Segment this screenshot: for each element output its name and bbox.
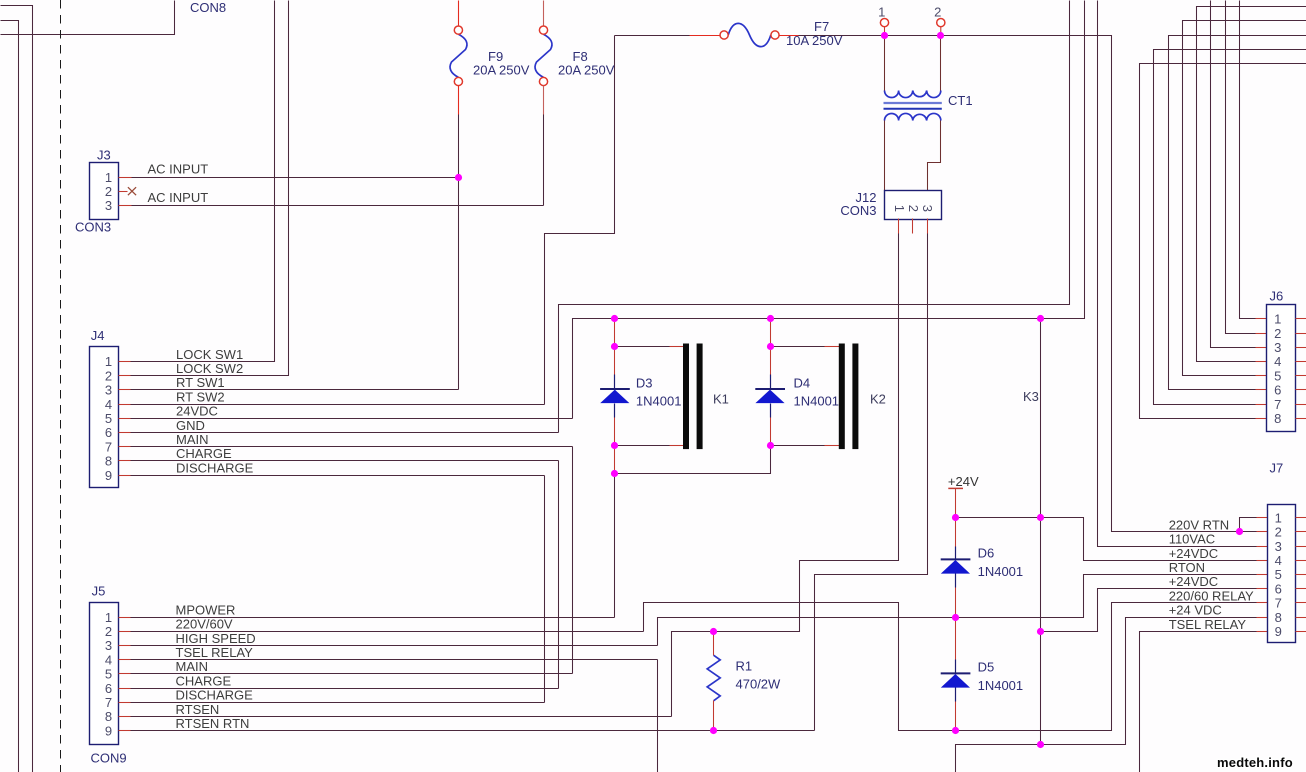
svg-text:220V RTN: 220V RTN: [1169, 517, 1229, 532]
svg-text:3: 3: [105, 383, 112, 398]
diode D4 cathode stem and bar: [770, 375, 772, 390]
svg-text:8: 8: [1275, 610, 1282, 625]
wire TSEL RELAY J5-4 rightward: [131, 659, 658, 661]
pin J7-5 red stub: [1257, 574, 1268, 576]
svg-text:RT SW1: RT SW1: [176, 375, 225, 390]
diode D6 lower red lead: [955, 588, 957, 618]
junction dot K3 at +24 VDC rail: [1037, 741, 1044, 748]
svg-text:R1: R1: [736, 658, 753, 673]
svg-text:220/60 RELAY: 220/60 RELAY: [1169, 588, 1254, 603]
wire RTSEN from J5-8 up to R1-top rail across and up to J12 pin1: [672, 234, 899, 717]
wire TSEL RELAY J7-9 row down to bottom edge: [1140, 632, 1257, 772]
pin J7-3 red stub: [1257, 546, 1268, 548]
wire bus-A top-left horizontal+vertical: [1, 6, 33, 772]
transformer CT1 primary winding arcs: [885, 91, 941, 98]
wire +24VDC J7-6 C-link down to K3 column: [1041, 589, 1257, 632]
wire rail from D5 bottom handled in 220V/60V route; second rail +24 VDC J7-8: [956, 618, 1257, 772]
svg-text:220V/60V: 220V/60V: [176, 617, 233, 632]
svg-text:1N4001: 1N4001: [978, 564, 1024, 579]
junction dot CT1 pin 1: [881, 32, 888, 39]
pin J12-2 red stub (unconnected): [912, 219, 914, 234]
wire 110VAC from top edge down to J7-3: [1098, 1, 1257, 547]
wire MAIN link J4-7 to J5-5 vertical: [572, 447, 574, 674]
wire CHARGE link J4-8 to J5-6 vertical: [558, 461, 560, 689]
wire HIGH SPEED J5-3 rightward: [131, 645, 658, 647]
wire AC INPUT J3-3 to F8 bottom: [132, 205, 544, 207]
svg-text:D4: D4: [794, 375, 811, 390]
svg-text:AC INPUT: AC INPUT: [148, 161, 209, 176]
connector J6 body: [1267, 305, 1296, 432]
svg-text:RTON: RTON: [1169, 560, 1205, 575]
wire DISCHARGE J5-7 rightward: [131, 702, 545, 704]
wire J6-1 bus from top edge: [1240, 1, 1256, 319]
diode D5 cathode stem and bar: [955, 660, 957, 674]
diode D5 triangle anode: [941, 674, 970, 688]
wire +24V rail to J7-4 +24VDC: [956, 518, 1257, 561]
junction dot K3 at TSEL row: [1037, 628, 1044, 635]
svg-text:+24V: +24V: [948, 474, 979, 489]
svg-text:20A 250V: 20A 250V: [473, 63, 530, 78]
diode D6 cathode stem and bar: [955, 547, 957, 560]
svg-text:1N4001: 1N4001: [978, 678, 1024, 693]
svg-text:CON3: CON3: [840, 203, 876, 218]
svg-text:2: 2: [105, 368, 112, 383]
svg-text:LOCK SW1: LOCK SW1: [176, 347, 243, 362]
svg-text:J5: J5: [92, 584, 106, 599]
svg-text:MAIN: MAIN: [176, 659, 209, 674]
svg-text:1N4001: 1N4001: [636, 394, 682, 409]
pin J7-1 red stub: [1257, 517, 1268, 519]
transformer CT1 secondary winding arcs: [885, 113, 941, 120]
svg-text:2: 2: [906, 205, 921, 212]
wire MPOWER J5-1 to D3/K1 column: [131, 617, 615, 619]
connector J4 body: [90, 347, 119, 488]
junction dot AC INPUT / F9: [455, 174, 462, 181]
fuse F9 top red lead from top edge: [458, 1, 460, 26]
svg-text:3: 3: [1275, 539, 1282, 554]
relay K2 plate bars: [839, 344, 845, 450]
wire RTSEN RTN rail up at right end to J12 pin3 jog: [815, 234, 928, 731]
wire 24VDC J4-5 rightward: [131, 418, 573, 420]
pins J4 red stubs: [119, 361, 131, 363]
svg-text:J7: J7: [1270, 461, 1284, 476]
svg-text:1N4001: 1N4001: [794, 394, 840, 409]
pin J7-6 red stub: [1257, 588, 1268, 590]
pin J3-3 red stub: [119, 205, 132, 207]
transformer CT1 secondary right lead jog down to J12 pin3: [928, 121, 941, 191]
wire bus-B top-left horizontal+vertical: [1, 21, 19, 772]
diode D3 anode stem: [614, 404, 616, 418]
pins J5 red stubs: [119, 617, 131, 619]
svg-text:1: 1: [105, 354, 112, 369]
power symbol +24V tee bar: [948, 487, 963, 489]
diode D6 upper red lead: [955, 518, 957, 547]
svg-text:4: 4: [105, 397, 112, 412]
wire J6-8 bus from right edge: [1140, 64, 1306, 419]
svg-text:D6: D6: [978, 546, 995, 561]
svg-text:CON9: CON9: [91, 751, 127, 766]
pin circles at CT1 top pins 1 and 2: [885, 27, 941, 35]
svg-text:K1: K1: [713, 392, 729, 407]
power symbol +24V lead down to rail: [955, 489, 957, 518]
svg-text:3: 3: [920, 205, 935, 212]
wire from F7 left to jog column: [615, 35, 690, 37]
wire 220V/60V from J5-2 up over and down through D5 bottom to J7-7 220/60 RELAY: [644, 603, 1257, 731]
svg-text:2: 2: [105, 624, 112, 639]
svg-text:CON3: CON3: [75, 219, 111, 234]
svg-text:7: 7: [1274, 397, 1281, 412]
wire 220V/60V J5-2 rightward: [131, 631, 644, 633]
diode D3 triangle anode: [600, 390, 629, 404]
pin J3-1 red stub: [119, 177, 132, 179]
svg-text:+24VDC: +24VDC: [1169, 546, 1219, 561]
svg-text:7: 7: [105, 695, 112, 710]
relay K1 coil bottom wire: [615, 445, 670, 447]
wire between pins 1 and 2 and onward to right bus: [885, 36, 1257, 532]
fuse F7 element blue S-curve: [728, 23, 771, 46]
svg-text:CHARGE: CHARGE: [176, 673, 232, 688]
fuse F8 element blue S-curve: [535, 34, 552, 77]
fuse F9 bottom red lead: [458, 86, 460, 115]
pin J7-4 red stub: [1257, 560, 1268, 562]
svg-text:4: 4: [105, 652, 112, 667]
svg-text:3: 3: [105, 198, 112, 213]
diode D4 upper red lead: [770, 319, 772, 375]
svg-text:CHARGE: CHARGE: [176, 446, 232, 461]
svg-text:LOCK SW2: LOCK SW2: [176, 361, 243, 376]
svg-text:7: 7: [105, 439, 112, 454]
wire AC INPUT J3-1 to F9 junction: [132, 177, 459, 179]
wire CHARGE J5-6 rightward: [131, 688, 559, 690]
svg-text:J6: J6: [1270, 289, 1284, 304]
junction dots +24V rail at D6 and K3: [952, 514, 959, 521]
wire LOCK SW1 J4-1 up to top edge: [131, 1, 275, 362]
svg-text:medteh.info: medteh.info: [1217, 755, 1293, 770]
diode D4 triangle anode: [755, 390, 784, 404]
diode D5 lower red lead: [955, 702, 957, 731]
resistor R1 bottom red lead: [713, 701, 715, 731]
wire J6-2 bus from top edge: [1226, 1, 1256, 334]
resistor R1 zigzag element: [707, 655, 720, 700]
junction dots K1 coil top and K2 coil top: [611, 343, 618, 350]
wire 220V RTN row to junction and pins 1-2 of J7: [1240, 518, 1257, 532]
svg-text:RTSEN: RTSEN: [176, 702, 220, 717]
connector J3 body CON3: [90, 163, 119, 220]
svg-text:4: 4: [1275, 553, 1282, 568]
pins J6 right-side red stubs to sheet edge: [1296, 318, 1306, 320]
svg-text:9: 9: [105, 723, 112, 738]
wire MAIN J5-5 rightward: [131, 673, 573, 675]
svg-text:2: 2: [1275, 525, 1282, 540]
relay K1 coil top wire: [615, 346, 670, 348]
wire RTSEN RTN J5-9 rail to R1 bottom: [131, 730, 815, 732]
svg-text:9: 9: [1275, 624, 1282, 639]
pin J7-7 red stub: [1257, 602, 1268, 604]
fuse F9 terminal circles: [454, 26, 462, 34]
svg-text:1: 1: [878, 5, 885, 20]
diode D3 lower red lead: [614, 418, 616, 474]
svg-text:J3: J3: [97, 148, 111, 163]
svg-text:20A 250V: 20A 250V: [558, 63, 615, 78]
svg-text:5: 5: [1274, 368, 1281, 383]
wire HIGH SPEED from J5-3 up across D6 bottom and up to RTON row J7-5: [658, 575, 1257, 646]
relay K2 coil top wire: [771, 346, 825, 348]
fuse F9 element blue S-curve: [450, 34, 467, 77]
wire F9 bottom column down to RT SW1: [458, 115, 460, 390]
wire GND rail: J4-6 up, across, to top edge: [559, 1, 1070, 433]
diode D4 anode stem: [770, 404, 772, 418]
svg-text:DISCHARGE: DISCHARGE: [176, 688, 254, 703]
svg-text:6: 6: [1274, 383, 1281, 398]
wire TSEL RELAY J5-4 down to bottom edge: [657, 660, 659, 772]
pin J7-8 red stub: [1257, 617, 1268, 619]
wire RT SW1 J4-3 to F9 column: [131, 389, 459, 391]
wire J6-6 bus from right edge: [1169, 36, 1306, 390]
svg-text:DISCHARGE: DISCHARGE: [176, 460, 254, 475]
fuse F8 terminal circles: [539, 26, 547, 34]
junction dot D3 bottom rail: [611, 470, 618, 477]
pin J12-1 red stub below box: [898, 219, 900, 234]
svg-text:MPOWER: MPOWER: [176, 602, 236, 617]
diode D5 upper red lead: [955, 618, 957, 660]
wire LOCK SW2 J4-2 up to top edge: [131, 1, 289, 376]
junction dots K1 coil bottom and K2 coil bottom: [611, 442, 618, 449]
relay K1 plate bars: [683, 344, 689, 450]
svg-text:8: 8: [105, 709, 112, 724]
svg-text:K2: K2: [870, 392, 886, 407]
transformer CT1 core line lower: [884, 108, 942, 110]
svg-text:6: 6: [105, 681, 112, 696]
svg-text:6: 6: [1275, 581, 1282, 596]
svg-text:1: 1: [1274, 312, 1281, 327]
svg-text:2: 2: [934, 5, 941, 20]
dashed sheet boundary line: [60, 0, 62, 772]
wire F7 right to transformer pin 1: [799, 35, 885, 37]
resistor R1 top red lead: [713, 632, 715, 656]
wire J6-5 bus from right edge: [1183, 21, 1306, 376]
wire MAIN J4-7 rightward: [131, 446, 573, 448]
wire GND J4-6 rightward: [131, 432, 559, 434]
junction dot R1 top: [710, 628, 717, 635]
svg-text:3: 3: [1274, 340, 1281, 355]
svg-text:1: 1: [892, 205, 907, 212]
svg-text:CT1: CT1: [948, 93, 973, 108]
svg-text:1: 1: [105, 610, 112, 625]
svg-text:RT SW2: RT SW2: [176, 389, 225, 404]
pin J12-3 red stub below box: [927, 219, 929, 234]
relay K2 coil bottom wire: [771, 445, 825, 447]
junction dot D6 bottom / D5 top: [952, 614, 959, 621]
fuse F7 terminal circles: [720, 31, 728, 39]
svg-text:5: 5: [105, 411, 112, 426]
junction dots RTSEN RTN rail at R1 bottom and D5 bottom: [710, 727, 717, 734]
svg-text:MAIN: MAIN: [176, 432, 209, 447]
pin J3-2 red stub with no-connect X: [119, 191, 128, 193]
pins J7 right-side red stubs to sheet edge: [1296, 517, 1306, 519]
svg-text:F7: F7: [814, 19, 829, 34]
wire DISCHARGE link J4-9 to J5-7 vertical: [544, 476, 546, 703]
svg-text:1: 1: [105, 170, 112, 185]
wire D3 column continues down to MPOWER row: [614, 474, 616, 618]
svg-text:8: 8: [1274, 411, 1281, 426]
wire RTSEN J5-8 rightward: [131, 716, 672, 718]
junction dot CT1 pin 2: [937, 32, 944, 39]
diode D6 triangle anode: [941, 560, 970, 574]
svg-text:2: 2: [105, 184, 112, 199]
svg-text:HIGH SPEED: HIGH SPEED: [176, 631, 256, 646]
wire RT SW2 J4-4 rightward: [131, 404, 545, 406]
transformer CT1 core line upper: [884, 102, 942, 104]
svg-text:+24 VDC: +24 VDC: [1169, 603, 1222, 618]
fuse F7 right red lead: [780, 35, 799, 37]
diode D3 upper red lead: [614, 319, 616, 375]
svg-text:J4: J4: [91, 328, 105, 343]
diode D4 lower red lead: [770, 418, 772, 446]
svg-text:TSEL RELAY: TSEL RELAY: [176, 645, 254, 660]
svg-text:4: 4: [1274, 354, 1281, 369]
svg-text:5: 5: [1275, 567, 1282, 582]
transformer CT1 primary right lead: [940, 36, 942, 91]
svg-text:7: 7: [1275, 596, 1282, 611]
fuse F8 top red lead from top edge: [543, 1, 545, 26]
connector J7 body: [1268, 505, 1296, 643]
diode D5 anode stem: [955, 688, 957, 702]
svg-text:5: 5: [105, 667, 112, 682]
svg-text:9: 9: [105, 468, 112, 483]
svg-text:GND: GND: [176, 418, 205, 433]
wire CON8 net from left edge up to top: [1, 1, 175, 35]
fuse F8 bottom red lead: [543, 86, 545, 115]
wire CHARGE J4-8 rightward: [131, 460, 559, 462]
svg-text:8: 8: [105, 454, 112, 469]
svg-text:D3: D3: [636, 375, 653, 390]
svg-text:1: 1: [1275, 510, 1282, 525]
svg-text:2: 2: [1274, 326, 1281, 341]
wire J6-7 bus from right edge: [1154, 50, 1306, 405]
svg-text:110VAC: 110VAC: [1169, 532, 1216, 547]
wire RT SW2 link from F7 jog down to J4-4: [545, 36, 615, 405]
diode D3 cathode stem and bar: [614, 375, 616, 390]
svg-text:TSEL RELAY: TSEL RELAY: [1169, 617, 1247, 632]
diode D6 anode stem: [955, 574, 957, 588]
wire 24VDC rail: J4-5 up, across (D3 D4 K3), to top edge: [573, 1, 1085, 419]
wire F8 bottom column down to AC INPUT row: [543, 115, 545, 206]
wire J6-3 bus from top edge: [1211, 1, 1256, 348]
pin J7-9 red stub: [1257, 631, 1268, 633]
connector J12 body: [885, 191, 942, 220]
junction dot 220V RTN at J7 pins 1-2: [1236, 528, 1243, 535]
svg-text:CON8: CON8: [190, 0, 226, 15]
wire DISCHARGE J4-9 rightward: [131, 475, 545, 477]
svg-text:24VDC: 24VDC: [176, 404, 218, 419]
relay K3 net vertical line: [1040, 319, 1042, 745]
svg-text:AC INPUT: AC INPUT: [148, 190, 209, 205]
wire J6-4 bus from right edge: [1197, 7, 1306, 362]
junction dots on 24VDC rail at D3 D4 K3: [611, 315, 618, 322]
svg-text:6: 6: [105, 425, 112, 440]
fuse F7 left red lead: [690, 35, 720, 37]
wire bottom rail linking D3 bottom to D4 bottom: [615, 446, 771, 474]
svg-text:3: 3: [105, 638, 112, 653]
svg-text:K3: K3: [1023, 389, 1039, 404]
svg-text:RTSEN RTN: RTSEN RTN: [176, 716, 250, 731]
connector J5 body CON9: [90, 603, 119, 745]
transformer CT1 secondary left lead down to J12: [884, 121, 886, 191]
transformer CT1 primary left lead: [884, 36, 886, 91]
svg-text:D5: D5: [978, 660, 995, 675]
svg-text:+24VDC: +24VDC: [1169, 574, 1219, 589]
svg-text:470/2W: 470/2W: [736, 677, 782, 692]
